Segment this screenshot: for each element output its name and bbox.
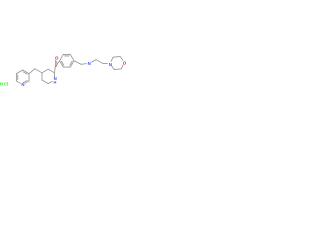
svg-text:H: H [0, 81, 3, 86]
atom N morpholine [109, 62, 112, 67]
benzyl bond to amine N [74, 61, 87, 65]
carbonyl C=O bonds [54, 60, 56, 73]
atom O carbonyl [55, 56, 59, 61]
ethylene chain bonds [91, 60, 107, 64]
atom O morpholine [123, 60, 127, 65]
hydrochloride H label [0, 81, 3, 86]
atom H on piperidine N [54, 79, 57, 84]
hydrochloride Cl label [4, 81, 8, 86]
svg-text:N: N [109, 62, 112, 67]
morpholine ring [111, 57, 123, 70]
atom N pyridine [21, 82, 24, 87]
svg-text:H: H [54, 79, 57, 84]
svg-text:N: N [21, 82, 24, 87]
svg-text:Cl: Cl [4, 81, 8, 86]
atom N piperidine [54, 76, 57, 81]
svg-text:N: N [88, 61, 91, 66]
methylene bridge bond [29, 69, 42, 74]
atom N amine [88, 61, 91, 66]
benzene ring [60, 55, 74, 67]
bond carbonyl to benzene [55, 61, 59, 67]
pyridine ring [16, 70, 29, 83]
piperidine ring [42, 69, 54, 83]
